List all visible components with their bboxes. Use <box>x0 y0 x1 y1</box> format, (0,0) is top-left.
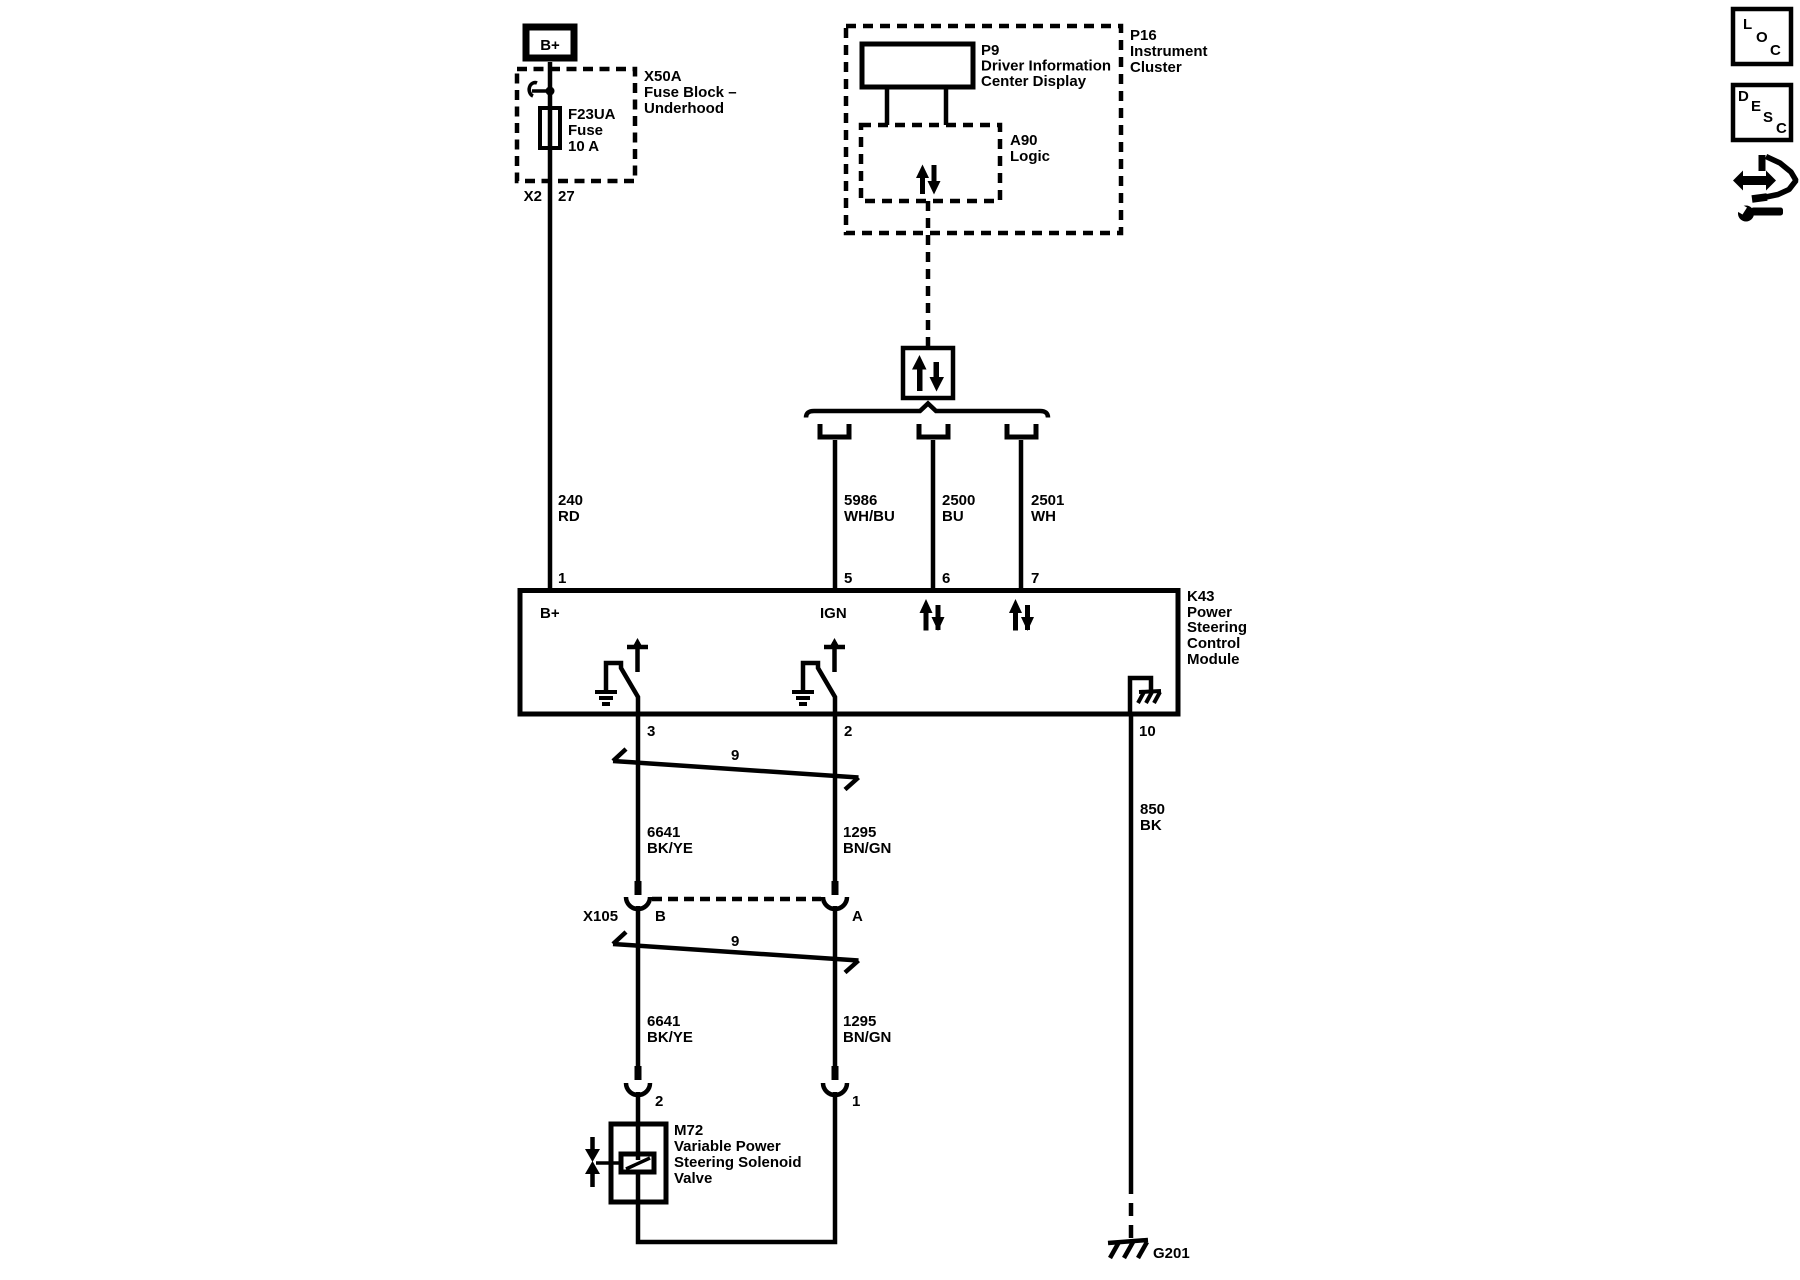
connector X105 dashed link <box>652 897 821 902</box>
svg-text:27: 27 <box>558 188 575 205</box>
svg-text:3: 3 <box>647 723 655 740</box>
svg-text:9: 9 <box>731 933 739 950</box>
pin number labels above K43 <box>558 570 1039 587</box>
svg-text:BN/GN: BN/GN <box>843 1029 891 1046</box>
connector terminal for wire 5986 <box>820 424 849 437</box>
svg-text:2: 2 <box>844 723 852 740</box>
connector terminal for wire 2501 <box>1007 424 1036 437</box>
internal switch driver for pin 2 <box>803 638 845 713</box>
M72 connector terminal pin 2 <box>626 1066 650 1095</box>
svg-text:B+: B+ <box>540 37 560 54</box>
wire label 2500 BU <box>942 492 975 525</box>
svg-text:G201: G201 <box>1153 1245 1190 1262</box>
svg-text:1295: 1295 <box>843 824 876 841</box>
wire 6641 BK/YE upper <box>636 713 641 881</box>
labels pin 2 and pin 1 <box>655 1093 860 1110</box>
M72 variable power steering solenoid valve box <box>611 1124 666 1202</box>
labels X105 B A <box>583 908 863 925</box>
wire 1295 BN/GN lower <box>833 906 838 1070</box>
connector X2 pin 27 labels <box>524 188 575 205</box>
svg-text:RD: RD <box>558 508 580 525</box>
serial data interface box with arrows <box>903 348 953 398</box>
driver information center display P9 box <box>862 44 973 87</box>
svg-text:S: S <box>1763 109 1773 126</box>
wire label 1295 BN/GN upper <box>843 824 891 857</box>
twisted pair symbol upper with label 9 <box>613 747 859 790</box>
svg-text:6641: 6641 <box>647 1013 680 1030</box>
wire label 6641 BK/YE upper <box>647 824 693 857</box>
svg-text:Steering Solenoid: Steering Solenoid <box>674 1154 802 1171</box>
wire label 850 BK <box>1140 801 1165 834</box>
svg-text:A90: A90 <box>1010 132 1038 149</box>
DESC legend box <box>1733 85 1791 140</box>
label P9 Driver Information Center Display <box>981 42 1111 90</box>
svg-text:Variable Power: Variable Power <box>674 1138 781 1155</box>
svg-text:E: E <box>1751 98 1761 115</box>
connector X105 terminal B <box>626 881 650 909</box>
connector X105 terminal A <box>823 881 847 909</box>
svg-text:X2: X2 <box>524 188 542 205</box>
solenoid coil symbol <box>621 1154 654 1172</box>
svg-text:Logic: Logic <box>1010 148 1050 165</box>
svg-text:BU: BU <box>942 508 964 525</box>
pin number labels below K43 <box>647 723 1156 740</box>
svg-text:10: 10 <box>1139 723 1156 740</box>
ground G201 chassis symbol <box>1108 1240 1148 1258</box>
wire 2501 WH <box>1019 440 1024 589</box>
serial data arrows at pin 6 <box>920 599 945 631</box>
svg-text:Cluster: Cluster <box>1130 59 1182 76</box>
M72 connector terminal pin 1 <box>823 1066 847 1095</box>
svg-text:1: 1 <box>558 570 566 587</box>
svg-text:Fuse Block –: Fuse Block – <box>644 84 737 101</box>
battery positive B+ symbol <box>526 27 574 58</box>
wire 2500 BU <box>931 440 936 589</box>
wire 6641 BK/YE lower <box>636 906 641 1066</box>
bus brace <box>806 404 1048 418</box>
label P16 Instrument Cluster <box>1130 27 1208 76</box>
svg-text:6: 6 <box>942 570 950 587</box>
svg-text:BK/YE: BK/YE <box>647 840 693 857</box>
label A90 Logic <box>1010 132 1050 165</box>
LOC legend box <box>1733 9 1791 64</box>
return wire from M72 to pin 1 <box>638 1092 835 1242</box>
svg-text:D: D <box>1738 88 1749 105</box>
svg-text:P9: P9 <box>981 42 999 59</box>
svg-text:M72: M72 <box>674 1122 703 1139</box>
svg-text:Fuse: Fuse <box>568 122 603 139</box>
internal switch driver for pin 3 <box>606 638 648 713</box>
svg-text:BN/GN: BN/GN <box>843 840 891 857</box>
svg-text:850: 850 <box>1140 801 1165 818</box>
svg-text:O: O <box>1756 29 1768 46</box>
svg-text:Valve: Valve <box>674 1170 712 1187</box>
wire from connector 2 into M72 <box>636 1092 641 1160</box>
svg-text:1295: 1295 <box>843 1013 876 1030</box>
wire 850 BK from pin 10 <box>1129 713 1134 1181</box>
wire 5986 WH/BU <box>833 440 838 589</box>
svg-text:F23UA: F23UA <box>568 106 616 123</box>
wire label 2501 WH <box>1031 492 1064 525</box>
internal ground symbol right <box>792 692 814 704</box>
svg-text:C: C <box>1776 120 1787 137</box>
svg-text:9: 9 <box>731 747 739 764</box>
svg-text:6641: 6641 <box>647 824 680 841</box>
svg-text:5986: 5986 <box>844 492 877 509</box>
label F23UA Fuse 10 A <box>568 106 616 155</box>
svg-text:Module: Module <box>1187 651 1240 668</box>
P9 leg wires to A90 <box>885 87 890 125</box>
svg-text:Control: Control <box>1187 635 1240 652</box>
svg-text:X50A: X50A <box>644 68 682 85</box>
dashed end of wire 850 BK <box>1129 1181 1134 1238</box>
diagnostic arrows and wrench icon <box>1733 155 1796 222</box>
twisted pair symbol lower with label 9 <box>613 932 859 973</box>
internal chassis ground at pin 10 <box>1130 678 1161 713</box>
dashed serial data wire from A90 to interface box <box>926 201 931 348</box>
svg-text:Instrument: Instrument <box>1130 43 1208 60</box>
label M72 Variable Power Steering Solenoid Valve <box>674 1122 802 1187</box>
svg-text:BK/YE: BK/YE <box>647 1029 693 1046</box>
svg-text:240: 240 <box>558 492 583 509</box>
svg-text:P16: P16 <box>1130 27 1157 44</box>
svg-text:L: L <box>1743 16 1752 33</box>
svg-text:10 A: 10 A <box>568 138 599 155</box>
wire label 1295 BN/GN lower <box>843 1013 891 1046</box>
fuse F23UA <box>540 108 560 148</box>
fuse clip terminal <box>529 83 554 96</box>
fuse block X50A dashed box <box>517 69 635 181</box>
svg-text:Underhood: Underhood <box>644 100 724 117</box>
svg-text:WH/BU: WH/BU <box>844 508 895 525</box>
svg-text:K43: K43 <box>1187 588 1215 605</box>
svg-text:C: C <box>1770 42 1781 59</box>
label X50A Fuse Block Underhood <box>644 68 737 117</box>
svg-text:2500: 2500 <box>942 492 975 509</box>
svg-text:Driver Information: Driver Information <box>981 58 1111 75</box>
internal ground symbol left <box>595 692 617 704</box>
svg-text:1: 1 <box>852 1093 860 1110</box>
svg-text:B: B <box>655 908 666 925</box>
svg-text:BK: BK <box>1140 817 1162 834</box>
wire label 6641 BK/YE lower <box>647 1013 693 1046</box>
wire 1295 BN/GN upper <box>833 713 838 881</box>
connector terminal for wire 2500 <box>919 424 948 437</box>
svg-text:B+: B+ <box>540 605 560 622</box>
instrument cluster P16 dashed box <box>846 26 1121 233</box>
logic block A90 dashed box <box>861 125 1000 201</box>
wire label 240 RD <box>558 492 583 525</box>
valve check symbol at left of M72 <box>585 1137 621 1187</box>
K43 power steering control module box <box>520 591 1178 715</box>
serial data arrows inside A90 <box>916 165 941 195</box>
serial data arrows at pin 7 <box>1009 599 1034 631</box>
svg-text:2: 2 <box>655 1093 663 1110</box>
svg-text:2501: 2501 <box>1031 492 1064 509</box>
svg-text:Center Display: Center Display <box>981 73 1087 90</box>
svg-text:A: A <box>852 908 863 925</box>
svg-text:5: 5 <box>844 570 852 587</box>
wire label 5986 WH/BU <box>844 492 895 525</box>
svg-text:Steering: Steering <box>1187 619 1247 636</box>
wire through M72 below coil <box>636 1172 641 1202</box>
label K43 Power Steering Control Module <box>1187 588 1247 668</box>
svg-text:7: 7 <box>1031 570 1039 587</box>
svg-text:IGN: IGN <box>820 605 847 622</box>
svg-text:WH: WH <box>1031 508 1056 525</box>
svg-text:X105: X105 <box>583 908 618 925</box>
wire from B+ to K43 pin 1 (240 RD) <box>548 62 553 589</box>
